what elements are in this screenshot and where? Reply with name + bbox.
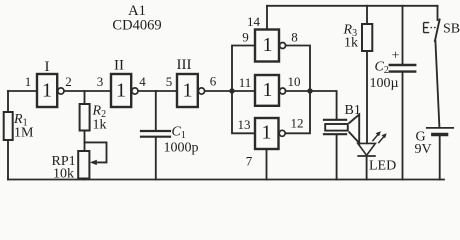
capacitor C2 xyxy=(390,64,415,66)
svg-text:8: 8 xyxy=(291,30,298,45)
wire: RP1 bottom lead xyxy=(83,179,85,180)
wire: R2 branch from pin2 wire xyxy=(84,91,86,104)
wire: C2 top lead xyxy=(402,6,404,65)
wire: node A down to gate VI input xyxy=(232,91,255,133)
potentiometer RP1 xyxy=(78,151,89,179)
speaker B1 top electrode plate xyxy=(323,119,347,121)
wire: C1 lower lead xyxy=(155,138,157,180)
svg-text:1: 1 xyxy=(263,34,273,56)
wire: switch to battery positive xyxy=(435,41,439,127)
svg-text:1: 1 xyxy=(183,80,193,102)
LED cathode bar xyxy=(357,155,375,157)
svg-text:12: 12 xyxy=(291,116,304,131)
switch SB blade xyxy=(435,20,440,42)
battery G negative plate xyxy=(433,133,447,136)
svg-text:B1: B1 xyxy=(345,103,361,118)
wire: gate III output to input node A xyxy=(205,90,232,92)
svg-text:1M: 1M xyxy=(14,126,34,141)
resistor R2 xyxy=(80,104,90,131)
svg-text:SB: SB xyxy=(443,22,460,37)
inverter gate V (pins 11-10) xyxy=(255,75,286,106)
speaker B1 horn cone xyxy=(349,115,360,144)
svg-text:7: 7 xyxy=(246,154,253,169)
wire: gate V output to node B xyxy=(286,90,310,92)
inverter gate VI (pins 13-12) xyxy=(255,118,285,149)
wire: pin 14 riser to V+ rail xyxy=(266,6,268,30)
svg-text:1000p: 1000p xyxy=(164,141,199,156)
svg-text:1: 1 xyxy=(263,79,273,101)
wire: node B to speaker B1 top lead xyxy=(310,91,337,119)
svg-text:10: 10 xyxy=(288,74,301,89)
RP1 wiper arrow xyxy=(90,160,97,165)
node A junction dot xyxy=(229,88,234,93)
svg-text:6: 6 xyxy=(210,74,217,89)
wire: node A up to gate IV input xyxy=(232,46,255,92)
inverter gate IV (pins 9-8) xyxy=(255,30,286,62)
wire: battery negative to bottom rail xyxy=(439,136,441,179)
op-amp/inverter gate I xyxy=(37,74,64,107)
svg-text:LED: LED xyxy=(369,159,396,174)
battery G positive plate xyxy=(427,127,453,129)
wire: R3 top lead from V+ rail xyxy=(366,6,368,24)
wire: node A to gate V input xyxy=(232,90,255,92)
svg-text:1k: 1k xyxy=(344,36,358,51)
svg-text:CD4069: CD4069 xyxy=(112,18,161,34)
wire: top V+ rail xyxy=(267,5,438,7)
speaker B1 bottom electrode plate xyxy=(323,133,347,135)
LED emission arrow 1 xyxy=(372,131,380,141)
svg-text:10k: 10k xyxy=(53,167,74,182)
wire: C1 branch upper lead xyxy=(155,91,157,131)
wire: gate IV output down to node B xyxy=(286,46,310,92)
svg-text:1: 1 xyxy=(262,122,272,144)
wire: input to gate I xyxy=(8,90,37,92)
svg-text:11: 11 xyxy=(239,75,252,90)
wire: C2 bottom lead xyxy=(402,73,404,180)
wire: left rail from gate I input down to bottom rail xyxy=(7,91,9,180)
svg-text:+: + xyxy=(392,49,400,64)
wire: gate VI output up to node B xyxy=(286,91,310,133)
svg-text:I: I xyxy=(45,59,50,75)
speaker B1 piezo element xyxy=(325,124,348,131)
svg-text:1k: 1k xyxy=(93,118,107,133)
svg-text:III: III xyxy=(177,57,192,73)
svg-text:3: 3 xyxy=(97,74,104,89)
svg-text:4: 4 xyxy=(139,74,146,89)
svg-text:9V: 9V xyxy=(415,142,432,157)
svg-text:9: 9 xyxy=(242,30,249,45)
svg-text:14: 14 xyxy=(247,14,261,29)
LED triangle xyxy=(358,143,376,155)
wire: gate I output to gate II input xyxy=(64,90,111,92)
wire: R3 bottom lead down to LED anode xyxy=(366,51,368,143)
svg-text:1: 1 xyxy=(42,80,52,102)
wire: pin 7 lead down to bottom rail xyxy=(266,149,268,180)
inverter gate II xyxy=(111,74,138,107)
resistor R3 xyxy=(362,24,372,51)
capacitor C1 xyxy=(141,131,170,137)
svg-text:2: 2 xyxy=(65,74,72,89)
inverter gate III xyxy=(177,74,205,107)
wire: LED cathode to bottom rail xyxy=(366,156,368,179)
svg-text:13: 13 xyxy=(238,117,251,132)
wire: RP1 wiper link xyxy=(85,142,107,162)
switch SB pushbutton actuator (E shape with dotted link) xyxy=(424,23,436,33)
svg-text:II: II xyxy=(114,58,124,74)
LED emission arrow 2 xyxy=(378,133,386,143)
svg-text:1: 1 xyxy=(25,74,32,89)
switch SB fixed contact xyxy=(437,6,439,20)
wire: bottom rail xyxy=(8,179,444,181)
wire: gate II output to gate III input xyxy=(138,90,177,92)
wire: R2 bottom to RP1 top xyxy=(84,131,86,152)
resistor R1 xyxy=(4,112,13,140)
wire: speaker B1 bottom lead xyxy=(336,135,338,179)
svg-text:1: 1 xyxy=(116,80,126,102)
svg-text:100µ: 100µ xyxy=(370,76,399,91)
svg-text:5: 5 xyxy=(166,74,173,89)
node B junction dot xyxy=(307,88,312,93)
